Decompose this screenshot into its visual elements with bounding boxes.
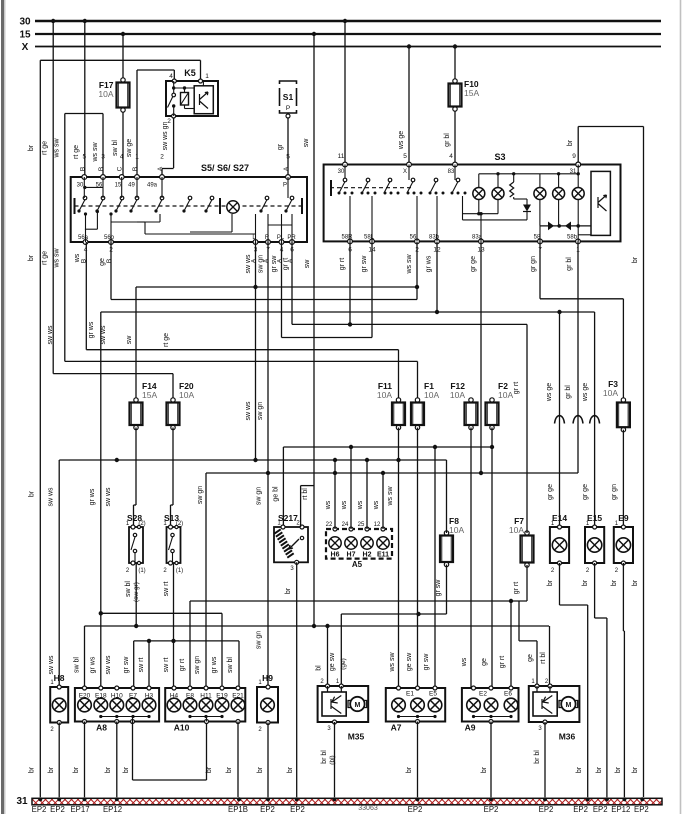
svg-text:(1): (1): [138, 568, 145, 574]
svg-text:sw ge: sw ge: [126, 139, 133, 157]
svg-text:58L: 58L: [364, 235, 375, 241]
svg-text:(ge): (ge): [340, 658, 347, 670]
svg-text:E1: E1: [406, 691, 414, 698]
svg-text:5: 5: [403, 153, 407, 160]
svg-text:1: 1: [135, 154, 139, 161]
svg-text:gr ge: gr ge: [582, 484, 589, 500]
svg-text:br: br: [632, 256, 639, 263]
svg-text:A9: A9: [465, 723, 476, 733]
svg-text:br: br: [481, 766, 488, 773]
svg-text:EP2: EP2: [290, 805, 305, 814]
svg-text:M35: M35: [348, 732, 365, 742]
svg-text:E2: E2: [479, 691, 487, 698]
svg-text:sw gn: sw gn: [258, 255, 265, 273]
svg-text:E15: E15: [587, 513, 602, 523]
svg-text:30: 30: [19, 17, 31, 28]
svg-text:gr ws: gr ws: [211, 656, 218, 673]
svg-text:sw: sw: [126, 335, 133, 345]
svg-text:15: 15: [115, 183, 122, 189]
svg-text:ws: ws: [341, 500, 348, 510]
svg-text:E19: E19: [216, 693, 228, 700]
svg-text:gr ws: gr ws: [88, 321, 95, 338]
svg-text:br: br: [73, 766, 80, 773]
svg-text:ws ge: ws ge: [398, 131, 405, 150]
svg-text:10A: 10A: [424, 390, 439, 400]
svg-text:EP12: EP12: [611, 805, 630, 814]
svg-text:H3: H3: [145, 693, 154, 700]
svg-text:br: br: [576, 766, 583, 773]
svg-text:58b: 58b: [567, 235, 578, 241]
svg-text:rt ge: rt ge: [73, 145, 80, 159]
svg-text:49a: 49a: [147, 183, 158, 189]
svg-text:sw: sw: [303, 138, 310, 148]
svg-text:H8: H8: [54, 673, 65, 683]
svg-text:12: 12: [374, 522, 381, 528]
svg-text:83: 83: [448, 169, 455, 175]
svg-text:bl: bl: [316, 665, 323, 671]
svg-text:H9: H9: [262, 673, 273, 683]
svg-text:ws: ws: [461, 657, 468, 667]
svg-text:58R: 58R: [341, 235, 353, 241]
svg-text:EP2: EP2: [50, 805, 65, 814]
svg-text:sw ws: sw ws: [100, 325, 107, 345]
svg-text:br: br: [582, 579, 589, 586]
svg-text:gr ge: gr ge: [470, 256, 477, 272]
svg-text:K5: K5: [184, 68, 196, 78]
svg-text:B: B: [132, 167, 139, 171]
svg-text:15A: 15A: [142, 390, 157, 400]
svg-text:E7: E7: [129, 693, 137, 700]
svg-text:EP17: EP17: [70, 805, 89, 814]
svg-text:33063: 33063: [358, 805, 378, 812]
svg-text:br: br: [285, 587, 292, 594]
svg-text:sw rt: sw rt: [163, 582, 170, 597]
svg-text:ws ge: ws ge: [546, 383, 553, 402]
svg-text:EP12: EP12: [103, 805, 122, 814]
svg-text:gr bl: gr bl: [565, 385, 572, 399]
svg-text:49: 49: [128, 183, 135, 189]
svg-text:E21: E21: [232, 693, 244, 700]
svg-text:br: br: [615, 766, 622, 773]
svg-text:A8: A8: [96, 723, 107, 733]
svg-text:4: 4: [120, 154, 124, 161]
svg-text:sw ws: sw ws: [245, 401, 252, 421]
svg-text:B: B: [98, 167, 105, 171]
svg-text:A: A: [157, 166, 164, 171]
svg-text:H4: H4: [170, 693, 179, 700]
svg-text:24: 24: [342, 522, 349, 528]
svg-text:ws sw: ws sw: [387, 486, 394, 507]
svg-text:R: R: [265, 235, 270, 241]
svg-text:br: br: [287, 766, 294, 773]
svg-text:56a: 56a: [78, 235, 89, 241]
svg-text:br: br: [123, 766, 130, 773]
svg-text:31: 31: [16, 796, 28, 807]
svg-text:sw ws: sw ws: [48, 655, 55, 675]
svg-text:X: X: [22, 42, 29, 53]
svg-text:sw gn: sw gn: [257, 402, 264, 420]
svg-text:rt bl: rt bl: [302, 488, 309, 500]
svg-text:9: 9: [572, 153, 576, 160]
svg-text:E11: E11: [377, 552, 389, 559]
svg-text:11: 11: [338, 153, 345, 160]
svg-text:gr ws: gr ws: [89, 488, 96, 505]
svg-text:gr rt: gr rt: [513, 582, 520, 595]
svg-text:br: br: [206, 766, 213, 773]
svg-text:gr gn: gr gn: [530, 256, 537, 272]
svg-text:25: 25: [358, 522, 365, 528]
svg-text:sw bl: sw bl: [74, 657, 81, 673]
svg-text:(bl): (bl): [329, 755, 336, 764]
svg-text:10A: 10A: [450, 390, 465, 400]
svg-text:H11: H11: [200, 693, 212, 700]
svg-text:S1: S1: [283, 92, 294, 102]
svg-text:30: 30: [338, 169, 345, 175]
svg-text:sw ws: sw ws: [105, 655, 112, 675]
svg-text:P: P: [283, 183, 287, 189]
svg-text:H2: H2: [363, 552, 372, 559]
svg-text:gr sw: gr sw: [271, 255, 278, 273]
svg-text:X: X: [403, 169, 407, 175]
svg-text:rt bl: rt bl: [540, 652, 547, 664]
svg-text:B: B: [106, 259, 113, 263]
svg-text:ws sw: ws sw: [54, 248, 61, 269]
svg-text:ge sw: ge sw: [406, 652, 413, 671]
svg-text:gr sw: gr sw: [435, 579, 442, 597]
svg-text:EP2: EP2: [260, 805, 275, 814]
svg-text:sw ws: sw ws: [245, 254, 252, 274]
svg-text:EP2: EP2: [32, 805, 47, 814]
svg-text:EP2: EP2: [484, 805, 499, 814]
svg-text:10A: 10A: [509, 525, 524, 535]
svg-text:gr sw: gr sw: [423, 653, 430, 671]
svg-text:1: 1: [205, 73, 209, 80]
svg-text:S5/ S6/ S27: S5/ S6/ S27: [201, 163, 249, 173]
svg-text:br: br: [29, 766, 36, 773]
svg-text:sw bl: sw bl: [112, 140, 119, 156]
svg-text:sw gn: sw gn: [256, 631, 263, 649]
svg-text:rt ge: rt ge: [163, 333, 170, 347]
svg-text:4: 4: [449, 153, 453, 160]
svg-text:ge: ge: [481, 658, 488, 666]
svg-text:H10: H10: [111, 693, 123, 700]
svg-text:H6: H6: [331, 552, 340, 559]
svg-text:sw bl: sw bl: [227, 657, 234, 673]
svg-text:ws: ws: [357, 500, 364, 510]
svg-text:sw: sw: [304, 259, 311, 269]
svg-text:M36: M36: [559, 732, 576, 742]
svg-text:gr ge: gr ge: [547, 484, 554, 500]
svg-text:sw rt: sw rt: [163, 658, 170, 673]
svg-text:5: 5: [82, 154, 86, 161]
svg-text:br: br: [48, 766, 55, 773]
svg-text:3: 3: [101, 154, 105, 161]
svg-text:E18: E18: [95, 693, 107, 700]
svg-text:rt ge: rt ge: [42, 141, 49, 155]
svg-text:br bl: br bl: [534, 750, 541, 764]
svg-text:gr sw: gr sw: [361, 255, 368, 273]
svg-text:br: br: [28, 144, 35, 151]
svg-text:sw gn: sw gn: [194, 656, 201, 674]
svg-text:10A: 10A: [498, 390, 513, 400]
svg-text:M: M: [565, 702, 571, 709]
svg-text:gr ws: gr ws: [89, 656, 96, 673]
svg-text:10A: 10A: [603, 388, 618, 398]
svg-text:gr bl: gr bl: [566, 257, 573, 271]
svg-text:4: 4: [169, 73, 173, 80]
svg-text:ws: ws: [373, 500, 380, 510]
svg-text:sw gn: sw gn: [256, 487, 263, 505]
svg-text:br: br: [632, 579, 639, 586]
svg-text:E20: E20: [79, 693, 91, 700]
svg-text:gr gn: gr gn: [611, 484, 618, 500]
svg-text:br: br: [28, 254, 35, 261]
svg-text:sw bl: sw bl: [125, 581, 132, 597]
svg-text:ws sw: ws sw: [54, 138, 61, 159]
svg-text:EP2: EP2: [634, 805, 649, 814]
svg-text:br: br: [632, 766, 639, 773]
svg-text:2: 2: [160, 154, 164, 161]
svg-text:PL: PL: [277, 235, 285, 241]
svg-text:ws sw: ws sw: [92, 142, 99, 163]
svg-text:br: br: [567, 139, 574, 146]
svg-text:sw ws: sw ws: [47, 325, 54, 345]
svg-text:10A: 10A: [449, 525, 464, 535]
svg-text:gr rt: gr rt: [283, 258, 290, 271]
svg-text:EP2: EP2: [573, 805, 588, 814]
svg-text:E5: E5: [429, 691, 437, 698]
svg-text:br: br: [29, 490, 36, 497]
svg-text:A7: A7: [391, 723, 402, 733]
svg-text:83b: 83b: [429, 235, 440, 241]
svg-text:(1): (1): [176, 568, 183, 574]
svg-text:br: br: [257, 766, 264, 773]
svg-text:sw gn: sw gn: [197, 486, 204, 504]
svg-text:br bl: br bl: [321, 750, 328, 764]
svg-text:B: B: [79, 167, 86, 171]
svg-text:ge bl: ge bl: [272, 486, 279, 502]
svg-text:M: M: [354, 702, 360, 709]
svg-text:br: br: [105, 766, 112, 773]
svg-text:A10: A10: [174, 723, 190, 733]
svg-text:gr rt: gr rt: [339, 258, 346, 271]
svg-text:EP2: EP2: [408, 805, 423, 814]
svg-text:30: 30: [77, 183, 84, 189]
svg-text:gr bl: gr bl: [444, 133, 451, 147]
svg-text:EP2: EP2: [593, 805, 608, 814]
svg-text:br: br: [226, 766, 233, 773]
svg-text:gr sw: gr sw: [123, 656, 130, 674]
svg-text:sw rt: sw rt: [138, 658, 145, 673]
svg-text:br: br: [596, 766, 603, 773]
svg-text:E9: E9: [618, 513, 629, 523]
svg-text:ws ge: ws ge: [582, 383, 589, 402]
svg-text:10A: 10A: [179, 390, 194, 400]
svg-text:sw ws: sw ws: [105, 487, 112, 507]
svg-text:ws sw: ws sw: [406, 254, 413, 275]
svg-text:gr: gr: [277, 143, 284, 150]
svg-text:gr rt: gr rt: [513, 382, 520, 395]
svg-text:sw ws: sw ws: [48, 487, 55, 507]
svg-text:br: br: [611, 579, 618, 586]
svg-text:br: br: [547, 579, 554, 586]
svg-text:C: C: [117, 166, 124, 171]
svg-text:rt ge: rt ge: [42, 251, 49, 265]
svg-text:S3: S3: [494, 152, 505, 162]
svg-text:ge sw: ge sw: [329, 652, 336, 671]
svg-text:ws sw: ws sw: [389, 652, 396, 673]
svg-text:15A: 15A: [464, 88, 479, 98]
svg-text:10A: 10A: [377, 390, 392, 400]
svg-text:22: 22: [326, 522, 333, 528]
svg-text:E6: E6: [504, 691, 512, 698]
svg-text:sw ws gn: sw ws gn: [162, 122, 169, 151]
svg-text:ws: ws: [74, 253, 81, 263]
svg-text:E8: E8: [186, 693, 194, 700]
svg-text:ge: ge: [99, 258, 106, 266]
svg-text:10A: 10A: [98, 89, 113, 99]
svg-text:A5: A5: [352, 560, 363, 569]
svg-text:gr ws: gr ws: [426, 255, 433, 272]
svg-text:EP1B: EP1B: [228, 805, 248, 814]
svg-text:br: br: [406, 766, 413, 773]
svg-text:S217: S217: [278, 513, 298, 523]
svg-text:H7: H7: [347, 552, 356, 559]
svg-text:gr rt: gr rt: [179, 659, 186, 672]
svg-text:5: 5: [286, 154, 290, 161]
svg-text:gr rt: gr rt: [499, 656, 506, 669]
svg-text:EP2: EP2: [539, 805, 554, 814]
svg-text:P: P: [286, 105, 290, 112]
svg-text:56b: 56b: [104, 235, 115, 241]
svg-text:15: 15: [19, 30, 31, 41]
svg-text:ge: ge: [527, 654, 534, 662]
svg-text:E14: E14: [552, 513, 567, 523]
svg-text:ws: ws: [325, 500, 332, 510]
svg-text:A: A: [283, 166, 290, 171]
svg-text:56: 56: [410, 235, 417, 241]
